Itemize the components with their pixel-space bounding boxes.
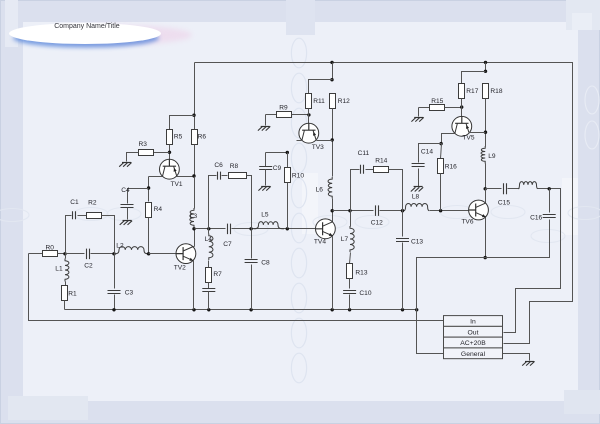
wire TV1 right leg to vertical (177, 176, 195, 178)
wire C16 top lead (549, 189, 551, 213)
svg-text:C2: C2 (84, 262, 93, 269)
wire to C15 (486, 188, 502, 190)
wire TV3 right leg to R12 line (317, 140, 333, 142)
wire R7 to cap (208, 283, 210, 289)
capacitor C9 (259, 165, 281, 172)
wire node A down to L1 (65, 254, 67, 259)
label R13 value (355, 269, 367, 276)
label R9 value (279, 105, 288, 112)
svg-text:L7: L7 (341, 236, 349, 243)
resistor R18 (483, 84, 489, 99)
node C14/R16 (439, 142, 442, 145)
svg-text:L3: L3 (190, 213, 198, 220)
wire C12 to L8 (380, 210, 405, 212)
svg-text:C12: C12 (371, 220, 383, 227)
svg-text:R12: R12 (338, 98, 350, 105)
label L4 (205, 236, 213, 243)
svg-text:R16: R16 (445, 163, 457, 170)
svg-text:R15: R15 (431, 98, 443, 105)
capacitor C12 (371, 205, 383, 226)
junction ground rail C10 (348, 308, 351, 311)
capacitor C13 (396, 239, 423, 246)
svg-text:C11: C11 (358, 150, 370, 157)
transistor TV1 (160, 159, 183, 188)
label R7 value (213, 271, 222, 278)
node TV1 top (168, 151, 171, 154)
resistor R13 (347, 264, 353, 279)
label R5 value (174, 134, 183, 141)
wire C9 top to R10 top (266, 152, 288, 154)
ground near R9 (258, 126, 270, 130)
resistor R4 (146, 203, 152, 218)
wire to C4 (128, 189, 149, 204)
capacitor C below R7 (202, 289, 215, 292)
wire node A to C2 (66, 253, 85, 255)
svg-text:R2: R2 (88, 200, 97, 207)
resistor R12 (330, 94, 336, 109)
node TV3 right leg (331, 138, 334, 141)
resistor R17 (459, 84, 465, 99)
ground near R15 (411, 117, 423, 121)
wire mid rail to C7 (195, 228, 226, 230)
wire L4 to R7 (208, 261, 210, 268)
label R8 value (230, 163, 239, 170)
svg-text:L4: L4 (205, 236, 213, 243)
label L6 (316, 187, 324, 194)
resistor R6 (192, 130, 198, 145)
wire TV5 right leg to R18 line (469, 132, 486, 134)
capacitor C10 (343, 290, 372, 297)
ground below C14 (411, 187, 423, 192)
wire C8 top (251, 229, 253, 259)
transistor TV5 (452, 116, 475, 141)
svg-text:C6: C6 (214, 162, 223, 169)
wire R0 to node A (58, 253, 66, 255)
label R16 value (445, 163, 457, 170)
wire C16 bottom return to General row (417, 220, 550, 354)
svg-text:R4: R4 (154, 206, 163, 213)
node TV5 right leg (484, 131, 487, 134)
wire R6 bottom to TV1 emitter node (194, 145, 196, 177)
wire R4 down to input rail (148, 218, 150, 254)
svg-text:C1: C1 (70, 199, 79, 206)
svg-text:R14: R14 (375, 158, 387, 165)
wire L8 to TV6 base (430, 210, 471, 212)
svg-text:L5: L5 (261, 212, 269, 219)
wire TV4 emitter to ground rail (332, 237, 334, 310)
wire R1 to ground rail (64, 301, 66, 310)
wire L3 to TV2 collector (194, 228, 196, 247)
node R5 branch (192, 114, 195, 117)
node R4 bottom (147, 252, 150, 255)
ground below C4 (120, 221, 132, 225)
node R17/R18 split (484, 70, 487, 73)
node C16 top (548, 187, 551, 190)
wire output down to Out row (504, 189, 561, 333)
svg-text:R8: R8 (230, 163, 239, 170)
wire TV1 node down to L3 (194, 177, 196, 209)
svg-text:TV3: TV3 (312, 144, 324, 151)
node B (112, 252, 115, 255)
label R4 value (154, 206, 163, 213)
label R2 value (88, 200, 97, 207)
junction top rail R18 (484, 61, 487, 64)
wire C9 to ground (265, 170, 267, 186)
label L7 (341, 236, 349, 243)
node mid rail start (192, 227, 195, 230)
wire R3 to ground (127, 153, 139, 162)
resistor R15 (430, 105, 445, 111)
wire TV3 left stub (297, 140, 302, 142)
resistor R16 (438, 159, 444, 174)
connector table In/Out/AC+20B/General (444, 316, 503, 359)
inductor L7 (350, 226, 354, 252)
junction ground rail TV4 emitter (331, 308, 334, 311)
wire base node down to R4 (148, 177, 150, 202)
svg-text:TV5: TV5 (462, 135, 474, 142)
node R10 bottom (286, 227, 289, 230)
label R0 value (46, 245, 55, 252)
label L1 (55, 265, 63, 272)
wire C4 to ground (127, 208, 129, 220)
wire C13 top (402, 211, 404, 237)
svg-text:L2: L2 (116, 242, 124, 249)
svg-text:R18: R18 (490, 88, 502, 95)
label R11 value (313, 98, 325, 105)
junction ground rail C13 (401, 308, 404, 311)
label R3 (139, 141, 148, 148)
svg-text:C7: C7 (223, 241, 232, 248)
node R4/C4 junction (147, 186, 150, 189)
capacitor C3 (108, 289, 134, 296)
label R6 value (198, 134, 207, 141)
node R17 bottom (460, 105, 463, 108)
inductor L5 (254, 212, 285, 229)
wire top rail down (332, 63, 334, 80)
capacitor C1 (70, 199, 79, 219)
wire R10 to mid rail (287, 183, 289, 229)
svg-text:AC+20B: AC+20B (460, 340, 486, 347)
node stage rail left (331, 209, 334, 212)
label R12 value (338, 98, 350, 105)
wire C7 to TV4 base (232, 228, 316, 230)
junction top rail R12 (330, 61, 333, 64)
wire C14 to ground (418, 169, 420, 187)
svg-text:C9: C9 (273, 165, 282, 172)
transistor TV4 (314, 219, 335, 246)
resistor R8 (229, 173, 247, 179)
wire C6 to R8 (222, 175, 228, 177)
inductor L3 (190, 208, 194, 228)
svg-text:L6: L6 (316, 187, 324, 194)
wire C3 to ground rail (114, 295, 116, 310)
capacitor C6 (214, 162, 223, 180)
label L3 (190, 213, 198, 220)
transistor TV2 (174, 244, 196, 272)
wire R17 to TV5 (461, 99, 463, 117)
node R16 bottom (439, 209, 442, 212)
label R1 value (68, 290, 77, 297)
node C13/R14 (401, 209, 404, 212)
wire branch to R17 (462, 72, 486, 84)
resistor R3 (139, 150, 154, 156)
wire ground to R9 (266, 114, 277, 116)
capacitor C11 (358, 150, 370, 174)
svg-text:In: In (470, 319, 476, 326)
wire stage rail to C12 (333, 210, 374, 212)
svg-text:R5: R5 (174, 134, 183, 141)
inductor L4 (209, 234, 213, 261)
svg-text:C16: C16 (530, 214, 542, 221)
wire to C14 (419, 144, 442, 163)
svg-text:TV4: TV4 (314, 239, 326, 246)
svg-text:C8: C8 (261, 259, 270, 266)
svg-text:C10: C10 (359, 290, 371, 297)
wire R16 to stage rail (440, 174, 442, 211)
svg-text:R3: R3 (139, 141, 148, 148)
capacitor C15 (498, 183, 510, 206)
resistor R14 (374, 167, 389, 173)
wire TV6 collector up (485, 189, 487, 203)
svg-text:R6: R6 (198, 134, 207, 141)
ground General (522, 361, 534, 365)
wire R12 down to L6 (332, 109, 334, 177)
junction ground rail R7 chain (207, 308, 210, 311)
wire R5 to TV1 collector (169, 145, 171, 160)
svg-text:R17: R17 (466, 88, 478, 95)
svg-text:R10: R10 (292, 173, 304, 180)
wire TV5 left leg down (442, 134, 455, 144)
ground near R3 (119, 163, 131, 167)
wire TV2 emitter down to rail (193, 261, 195, 310)
wire node to R16 (441, 144, 442, 159)
inductor L1 (65, 259, 69, 282)
svg-text:R13: R13 (355, 269, 367, 276)
wire loop up to C11 (351, 170, 360, 211)
wire R13 to C10 (349, 279, 351, 289)
transistor TV3 (299, 123, 324, 151)
inductor L2 (114, 242, 149, 254)
wire top supply rail and right side down to AC+20B (195, 63, 573, 344)
svg-text:TV2: TV2 (174, 264, 186, 271)
label L9 (488, 153, 496, 160)
wire L1 to R1 (65, 282, 67, 286)
wire branch to R5 (170, 116, 195, 130)
svg-text:R9: R9 (279, 105, 288, 112)
transistor TV6 (461, 200, 488, 225)
resistor R9 (277, 112, 292, 118)
junction ground rail rail end (415, 308, 418, 311)
svg-text:R11: R11 (313, 98, 325, 105)
inductor L8 (404, 193, 429, 210)
wire R8 loop right down (247, 176, 252, 229)
wire L7 to R13 (350, 253, 351, 264)
svg-text:Out: Out (468, 329, 479, 336)
svg-text:TV6: TV6 (461, 218, 473, 225)
resistor R0 (43, 251, 58, 257)
resistor R10 (285, 168, 291, 183)
wire C8 to ground rail (251, 265, 253, 310)
svg-text:General: General (461, 351, 486, 358)
label R18 value (490, 88, 502, 95)
svg-text:R1: R1 (68, 290, 77, 297)
wire rail to L4 (208, 229, 210, 234)
wire TV6 emitter down (485, 218, 487, 258)
wire L6 to TV4 collector (332, 199, 334, 222)
node C9/R10 (286, 151, 289, 154)
wire R15 left down (418, 108, 420, 117)
label R15 value (431, 98, 443, 105)
resistor R5 (167, 130, 173, 145)
svg-text:L1: L1 (55, 265, 63, 272)
wire rail to L7 (350, 211, 352, 227)
capacitor C4 (121, 187, 134, 208)
inductor L10 (519, 182, 538, 189)
wire down to C9 (265, 153, 267, 167)
wire ground to R15 (419, 107, 430, 109)
wire vertical from top rail to R6 (194, 63, 196, 130)
wire L9 to TV6 collector node (485, 164, 487, 189)
wire C2 to node B (91, 253, 115, 255)
node L4 branch (207, 227, 210, 230)
capacitor C7 (223, 224, 232, 249)
svg-text:R0: R0 (46, 245, 55, 252)
wire TV1 left leg to base node (149, 176, 163, 178)
wire R14 loop right down (389, 170, 403, 211)
svg-text:C4: C4 (121, 187, 130, 194)
capacitor C16 (530, 214, 556, 221)
label R17 value (466, 88, 478, 95)
wire C13 to ground rail (402, 243, 404, 310)
wire loop up to C6 (209, 176, 217, 229)
wire to R10 (287, 153, 289, 168)
svg-text:C15: C15 (498, 200, 510, 207)
wire General row to ground (503, 354, 530, 361)
node TV1-vertical junction (192, 174, 195, 177)
wire R2 to loop right down (102, 216, 115, 254)
resistor R1 (62, 286, 68, 301)
node R11/R12 split (330, 78, 333, 81)
node R11 bottom (307, 113, 310, 116)
node A (63, 252, 66, 255)
wire to TV2 base (149, 253, 177, 255)
wire TV2 collector stub (194, 246, 195, 248)
capacitor C2 (84, 249, 93, 270)
svg-text:L9: L9 (488, 153, 496, 160)
wire R18 down to L9 (485, 99, 487, 147)
wire R15 to TV5 node (445, 107, 462, 109)
wire cap to ground rail (208, 292, 210, 310)
junction ground rail TV2 emitter (192, 308, 195, 311)
wire input corner to R0 (29, 253, 44, 255)
wire C1 to R2 (78, 215, 87, 217)
wire C15 to output coil (508, 188, 520, 190)
svg-text:C14: C14 (421, 148, 433, 155)
resistor R11 (306, 94, 312, 109)
svg-text:R7: R7 (213, 271, 222, 278)
junction ground rail C8 (249, 308, 252, 311)
capacitor C14 (412, 148, 434, 166)
node L7/C11 (348, 209, 351, 212)
inductor L6 (328, 177, 332, 199)
label R14 value (375, 158, 387, 165)
wire R9 to TV3 top node (292, 114, 309, 116)
wire loop left up to C1 (66, 216, 72, 254)
resistor R7 (206, 268, 212, 283)
wire R11 to TV3 (308, 109, 310, 124)
wire C11 to R14 (366, 169, 374, 171)
label R10 value (292, 173, 304, 180)
node C8 branch (249, 227, 252, 230)
wire internal ground rail (65, 309, 417, 311)
wire branch to R11 (309, 80, 333, 94)
wire TV1 node to R3 (154, 152, 170, 154)
node TV6 collector / C15 (484, 187, 487, 190)
svg-text:L8: L8 (412, 193, 420, 200)
wire node B down to C3 (114, 254, 116, 289)
wire outer loop to In (29, 254, 444, 321)
inductor L9 (481, 146, 485, 164)
svg-text:C13: C13 (411, 239, 423, 246)
junction ground rail C3 (112, 308, 115, 311)
node emitter/C16 return (484, 256, 487, 259)
svg-text:Company Name/Title: Company Name/Title (54, 23, 120, 30)
wire C10 to ground rail (349, 295, 351, 310)
capacitor C8 (245, 259, 270, 266)
svg-text:TV1: TV1 (171, 181, 183, 188)
wire top rail down to split (485, 63, 487, 72)
resistor R2 (87, 213, 102, 219)
ground below C9 (258, 186, 270, 190)
wire R9 left down (265, 115, 267, 126)
svg-text:C3: C3 (125, 289, 134, 296)
